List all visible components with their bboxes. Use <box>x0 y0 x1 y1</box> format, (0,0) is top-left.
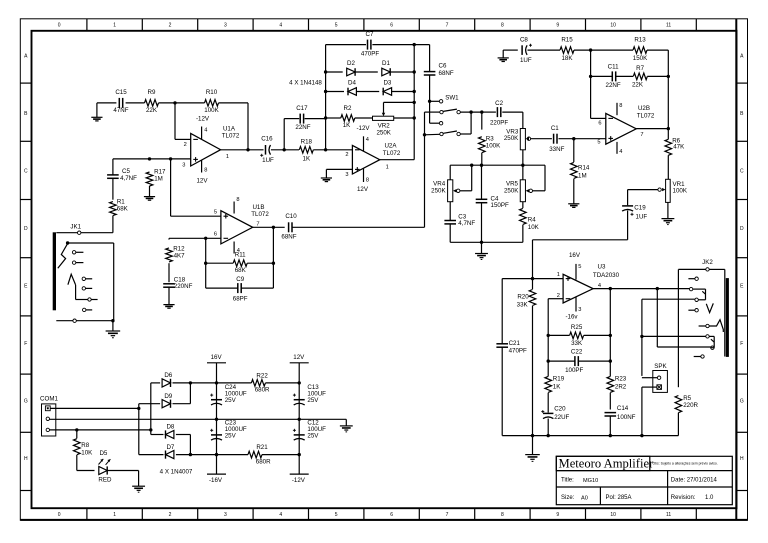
wire down to U1A pin2 <box>174 103 176 139</box>
node junction C4 top <box>480 164 483 167</box>
svg-text:JK2: JK2 <box>702 259 713 266</box>
wire VR2 right <box>394 117 415 119</box>
12V rail <box>298 363 300 474</box>
svg-text:5: 5 <box>578 264 581 270</box>
capacitor C6 <box>429 45 431 72</box>
svg-text:Title:: Title: <box>561 477 574 483</box>
node junction ground stem <box>480 241 483 244</box>
svg-text:6: 6 <box>390 23 393 29</box>
node left bus R2 <box>324 116 327 119</box>
JK1 tip terminal <box>78 231 81 234</box>
capacitor C3 <box>449 202 451 221</box>
op-amp U2A <box>352 145 379 174</box>
capacitor C2 <box>496 107 498 117</box>
node junction U2B output <box>667 127 670 130</box>
svg-text:Pol: 285A: Pol: 285A <box>606 495 632 501</box>
svg-text:47K: 47K <box>673 144 685 151</box>
COM1 terminal 1 <box>45 406 50 411</box>
svg-text:10K: 10K <box>528 224 540 231</box>
svg-text:D: D <box>740 226 744 232</box>
wire U1B pin6 <box>169 237 221 239</box>
wire C15 input <box>97 102 117 104</box>
op-amp U1B <box>221 211 253 244</box>
svg-text:U2B: U2B <box>638 105 650 112</box>
JK1 contact circle 6 <box>83 308 86 311</box>
U1A input symbols <box>193 138 198 140</box>
U1B power stub top <box>233 202 235 214</box>
svg-text:R21: R21 <box>256 444 268 451</box>
svg-text:8: 8 <box>236 197 239 203</box>
SPK box <box>653 371 668 393</box>
svg-text:9: 9 <box>556 512 559 518</box>
capacitor C19 polarized <box>627 190 629 206</box>
svg-text:8: 8 <box>204 167 207 173</box>
svg-text:U3: U3 <box>598 263 606 270</box>
svg-text:D7: D7 <box>166 444 174 451</box>
COM1 box <box>42 404 56 436</box>
wire diode row 1 <box>326 71 343 73</box>
JK1 contact circle 3 <box>82 277 85 280</box>
diode D3 <box>383 88 391 96</box>
svg-text:D1: D1 <box>382 60 390 67</box>
resistor R10 <box>205 100 219 107</box>
16V terminal <box>207 362 226 364</box>
capacitor C1 <box>553 134 555 144</box>
svg-text:2: 2 <box>169 23 172 29</box>
resistor R9 <box>145 100 159 107</box>
svg-text:25V: 25V <box>307 397 319 404</box>
title name box <box>556 456 650 470</box>
LED D5 <box>99 466 107 474</box>
wire D7 row <box>139 454 164 456</box>
svg-text:C17: C17 <box>296 105 308 112</box>
svg-text:22K: 22K <box>146 107 158 114</box>
U1A power stub bottom <box>201 160 203 173</box>
svg-text:C21: C21 <box>509 340 521 347</box>
svg-text:C7: C7 <box>366 31 374 38</box>
svg-text:10: 10 <box>610 23 616 29</box>
svg-text:SPK: SPK <box>654 363 667 370</box>
capacitor C22 <box>548 360 575 362</box>
node left bus D4 <box>324 90 327 93</box>
svg-text:220PF: 220PF <box>490 119 508 126</box>
capacitor C13 polarized <box>294 399 305 401</box>
svg-text:5: 5 <box>335 512 338 518</box>
diode D7 <box>166 451 174 459</box>
svg-text:C5: C5 <box>122 168 130 175</box>
node junction output branch <box>272 226 275 229</box>
resistor R6 <box>667 129 669 140</box>
svg-text:F: F <box>740 341 743 347</box>
svg-text:6: 6 <box>598 120 601 126</box>
SPK return wire <box>642 386 653 388</box>
svg-text:COM1: COM1 <box>40 396 58 403</box>
resistor R23 <box>607 376 614 392</box>
svg-text:VR2: VR2 <box>378 122 391 129</box>
JK2 contact C bar <box>693 288 706 290</box>
svg-text:7: 7 <box>446 512 449 518</box>
svg-text:1K: 1K <box>343 122 351 129</box>
U1A power stub top <box>201 127 203 140</box>
node junction rail C14 <box>609 434 612 437</box>
svg-text:220NF: 220NF <box>174 283 193 290</box>
svg-text:Date: 27/01/2014: Date: 27/01/2014 <box>671 477 718 483</box>
ground for tone stack <box>481 242 483 253</box>
svg-text:R4: R4 <box>528 216 536 223</box>
-12V terminal <box>290 473 309 475</box>
resistor R17 <box>146 172 153 186</box>
SW1 pole 2 output contact <box>457 132 460 135</box>
svg-text:R10: R10 <box>206 89 218 96</box>
svg-text:1: 1 <box>386 165 389 171</box>
VR1 wiper <box>658 188 661 191</box>
12V terminal <box>290 362 309 364</box>
wire D8 row <box>151 434 164 436</box>
svg-text:U1A: U1A <box>223 125 236 132</box>
svg-text:TL072: TL072 <box>222 133 240 140</box>
svg-text:220R: 220R <box>683 402 698 409</box>
svg-text:1: 1 <box>113 512 116 518</box>
JK1 contact circle 2 <box>72 261 75 264</box>
wire C2 to VR3 <box>502 111 523 113</box>
node junction output/jack tap <box>656 287 659 290</box>
resistor R8 <box>76 430 78 439</box>
ground for VR1 <box>661 218 674 220</box>
node junction rail SPK <box>640 434 643 437</box>
svg-text:C15: C15 <box>115 89 127 96</box>
node junction R25 left <box>547 334 550 337</box>
wire R8 to D5 <box>77 470 95 472</box>
JK2 contact C <box>689 287 692 290</box>
wire C17 branch <box>283 119 285 150</box>
svg-text:C1: C1 <box>551 125 559 132</box>
AC vertical 1 <box>138 404 140 455</box>
wire U3 pin1 <box>533 278 564 280</box>
JK2 contact E <box>695 309 698 312</box>
wire R15 to R13 <box>574 49 633 51</box>
svg-text:C10: C10 <box>285 213 297 220</box>
svg-text:100PF: 100PF <box>565 367 583 374</box>
ground for C15 <box>96 103 98 117</box>
svg-text:33K: 33K <box>571 340 583 347</box>
JK1 spring 1 <box>58 244 68 269</box>
wire C16 to R18 <box>271 149 299 151</box>
svg-text:Obs: Sujeito a alterações sem: Obs: Sujeito a alterações sem prévio avi… <box>653 461 718 465</box>
svg-text:16V: 16V <box>569 252 581 259</box>
16V rail <box>216 363 218 474</box>
node junction VR5 top <box>521 164 524 167</box>
svg-text:R5: R5 <box>683 395 691 402</box>
wire C7 top <box>326 44 366 46</box>
ground for C18 <box>163 304 174 306</box>
wire U2A pin3 ground <box>326 168 352 170</box>
wire C10 to SW1 riser <box>292 226 425 228</box>
svg-text:-12V: -12V <box>356 125 370 132</box>
ground for R14 <box>568 203 579 205</box>
node junction output/R23 branch <box>609 287 612 290</box>
COM1 wire 2 center rail <box>50 418 347 420</box>
svg-text:1: 1 <box>113 23 116 29</box>
node junction output/R10 <box>246 148 249 151</box>
node right bus top <box>413 43 416 46</box>
node junction R11 right <box>272 262 275 265</box>
svg-text:TL072: TL072 <box>637 112 655 119</box>
JK1 contact circle 1 <box>72 251 75 254</box>
resistor R15 <box>560 47 574 54</box>
JK1 spring contact dot <box>66 241 69 244</box>
potentiometer VR4 <box>448 180 453 202</box>
U2B power stub top <box>616 103 618 115</box>
right diode bus <box>413 45 415 160</box>
JK2 spring F <box>709 320 723 332</box>
svg-text:1K: 1K <box>553 384 561 391</box>
svg-text:11: 11 <box>666 23 671 29</box>
capacitor C24 polarized <box>211 399 222 401</box>
U2A power stub bottom <box>363 169 365 183</box>
svg-text:D4: D4 <box>348 80 356 87</box>
svg-text:2: 2 <box>169 512 172 518</box>
SW1 pole 1 lever <box>443 109 457 111</box>
node junction R22/12V <box>298 381 301 384</box>
node junction R21/-12V <box>298 453 301 456</box>
wire U2A output <box>380 159 414 161</box>
SW1 pole 2 wire <box>425 133 440 136</box>
svg-text:25V: 25V <box>225 432 237 439</box>
svg-text:R23: R23 <box>615 375 627 382</box>
COM1 wire 3 <box>50 429 151 431</box>
capacitor C21 <box>496 343 508 345</box>
svg-text:22NF: 22NF <box>606 82 621 89</box>
capacitor C18 <box>168 263 170 282</box>
svg-text:4,7NF: 4,7NF <box>458 220 475 227</box>
svg-text:4: 4 <box>366 137 369 143</box>
svg-text:22UF: 22UF <box>554 414 569 421</box>
resistor R13 <box>633 47 647 54</box>
svg-text:C14: C14 <box>617 405 629 412</box>
svg-text:6: 6 <box>390 512 393 518</box>
SW1 throw 3 contact <box>439 122 442 125</box>
node junction R17 top <box>148 157 151 160</box>
svg-text:R19: R19 <box>553 375 565 382</box>
svg-text:1K: 1K <box>303 155 311 162</box>
SW1 pole 1 wire <box>425 111 440 113</box>
svg-text:D9: D9 <box>164 393 172 400</box>
svg-text:0: 0 <box>58 512 61 518</box>
svg-text:R20: R20 <box>517 294 529 301</box>
svg-text:D8: D8 <box>166 423 174 430</box>
svg-text:470PF: 470PF <box>361 51 379 58</box>
svg-text:12V: 12V <box>357 186 369 193</box>
svg-text:C11: C11 <box>608 63 619 70</box>
resistor R2 <box>341 115 355 122</box>
svg-text:C19: C19 <box>634 204 646 211</box>
svg-text:JK1: JK1 <box>70 224 81 231</box>
SPK feed vertical <box>641 299 643 376</box>
node junction D8/D7 <box>189 453 192 456</box>
svg-text:4: 4 <box>619 149 622 155</box>
svg-text:8: 8 <box>501 512 504 518</box>
resistor R5 <box>677 269 679 387</box>
node junction R8 <box>75 428 78 431</box>
svg-text:12V: 12V <box>196 177 208 184</box>
svg-text:R11: R11 <box>235 252 246 259</box>
node right bus D3 <box>413 90 416 93</box>
svg-text:47NF: 47NF <box>113 107 128 114</box>
svg-text:R17: R17 <box>154 168 166 175</box>
svg-text:R18: R18 <box>301 139 313 146</box>
svg-text:C2: C2 <box>495 100 503 107</box>
JK1 spring 2 <box>68 274 76 285</box>
ground for U3 rail <box>532 436 534 455</box>
wire R21 row <box>217 454 249 456</box>
svg-text:68PF: 68PF <box>233 296 248 303</box>
svg-text:R12: R12 <box>173 245 185 252</box>
JK2 contact F <box>706 324 709 327</box>
node junction SPK/jack G <box>640 335 643 338</box>
svg-text:9: 9 <box>556 23 559 29</box>
resistor R4 <box>522 202 524 208</box>
JK1 ground node <box>111 319 114 322</box>
svg-text:1M: 1M <box>154 176 163 183</box>
resistor R18 <box>299 147 313 154</box>
wire D6 row <box>151 382 160 384</box>
ground for D5 <box>132 485 145 487</box>
JK2 contact H <box>711 346 714 349</box>
wire D5 to ground <box>107 470 138 472</box>
svg-text:3: 3 <box>224 23 227 29</box>
node junction AC2 <box>149 428 152 431</box>
resistor R21 <box>248 451 262 458</box>
SW1 pole 1 contact <box>440 110 443 113</box>
svg-text:3: 3 <box>224 512 227 518</box>
node right bus VR2 <box>413 116 416 119</box>
svg-text:D3: D3 <box>383 80 391 87</box>
ground for JK1 <box>112 321 114 331</box>
wire R1 to JK1 tip <box>112 216 114 233</box>
svg-text:R3: R3 <box>486 136 494 143</box>
JK1 switch wire <box>68 242 114 244</box>
wire VR1 bottom to ground <box>667 202 669 218</box>
diode D9 <box>162 400 170 408</box>
capacitor C7 <box>367 40 369 50</box>
svg-text:33NF: 33NF <box>549 146 564 153</box>
svg-text:RED: RED <box>98 476 112 483</box>
node junction R9/R10/pin2 <box>173 101 176 104</box>
-16V terminal <box>207 473 226 475</box>
frame bottom-right thick edges <box>20 519 747 521</box>
SW1 pole 2 contact <box>440 132 443 135</box>
svg-text:22NF: 22NF <box>295 124 310 131</box>
svg-text:3: 3 <box>345 172 348 178</box>
node junction R3 top <box>480 110 483 113</box>
capacitor C10 <box>288 222 290 232</box>
resistor R22 <box>251 380 265 387</box>
node junction pin1/R20 <box>531 277 534 280</box>
svg-text:8: 8 <box>501 23 504 29</box>
diode D8 <box>166 430 174 438</box>
svg-text:68K: 68K <box>117 205 129 212</box>
resistor R25 <box>548 334 569 336</box>
svg-text:1: 1 <box>226 154 229 160</box>
JK1 body bar <box>53 233 56 310</box>
left diode bus <box>325 45 327 150</box>
svg-text:H: H <box>24 456 28 462</box>
svg-text:F: F <box>24 341 27 347</box>
svg-text:680R: 680R <box>255 386 270 393</box>
ground for U2A <box>321 177 332 179</box>
svg-text:5: 5 <box>214 209 217 215</box>
svg-text:3: 3 <box>578 307 581 313</box>
JK1 contact circle 5 <box>88 298 91 301</box>
node junction R25 right <box>609 334 612 337</box>
svg-text:16V: 16V <box>211 354 223 361</box>
wire C8 to R15 <box>528 49 561 51</box>
svg-text:R25: R25 <box>571 324 583 331</box>
capacitor C8 polarized <box>521 45 523 55</box>
svg-text:2R2: 2R2 <box>615 384 627 391</box>
resistor R7 <box>633 73 647 80</box>
U2A input symbols <box>355 149 360 151</box>
svg-text:680R: 680R <box>256 459 271 466</box>
SW1 throw 1 contact <box>439 100 442 103</box>
svg-text:R22: R22 <box>256 372 268 379</box>
wire R22 row <box>217 382 252 384</box>
node junction feedback <box>589 48 592 51</box>
svg-text:R14: R14 <box>578 165 590 172</box>
wire R18 to U2A pin2 <box>313 149 352 151</box>
U2A power stub top <box>363 136 365 151</box>
potentiometer VR1 <box>666 179 671 202</box>
svg-text:4: 4 <box>279 23 282 29</box>
potentiometer VR3 <box>520 129 525 150</box>
svg-text:TL072: TL072 <box>383 150 401 157</box>
svg-text:-16V: -16V <box>209 477 223 484</box>
R23 branch vertical <box>609 289 611 377</box>
U3 bottom rail <box>502 435 678 437</box>
capacitor C12 polarized <box>294 434 305 436</box>
node junction C6/throw1 <box>428 100 431 103</box>
node junction C11 branch <box>667 75 670 78</box>
ground for C8 <box>502 50 504 58</box>
svg-text:-12V: -12V <box>292 477 306 484</box>
svg-text:470PF: 470PF <box>509 347 527 354</box>
potentiometer VR2 <box>373 116 394 120</box>
SW1 pole 1 output contact <box>457 110 460 113</box>
node junction U1B branch <box>169 157 172 160</box>
ruler column dividers <box>86 19 88 31</box>
svg-text:Size:: Size: <box>561 495 575 501</box>
node junction VR4 wiper link <box>470 164 473 167</box>
svg-text:D2: D2 <box>347 60 355 67</box>
svg-text:4 X 1N4148: 4 X 1N4148 <box>289 79 322 86</box>
wire C8 input <box>503 49 518 51</box>
capacitor C11 <box>591 75 613 77</box>
ruler row dividers <box>20 82 31 84</box>
U1B power stub bottom <box>233 242 235 254</box>
svg-text:D5: D5 <box>99 450 107 457</box>
svg-text:C20: C20 <box>554 405 566 412</box>
wire input node line <box>113 158 191 160</box>
wire D9 row <box>139 403 160 405</box>
AC vertical 2 <box>150 383 152 435</box>
svg-text:11: 11 <box>666 512 671 518</box>
svg-text:C22: C22 <box>571 349 583 356</box>
capacitor C20 polarized <box>543 412 553 414</box>
svg-text:C: C <box>24 168 28 174</box>
JK2 spring DE <box>706 303 713 312</box>
svg-text:A0: A0 <box>581 496 588 502</box>
svg-text:-16v: -16v <box>565 313 578 320</box>
